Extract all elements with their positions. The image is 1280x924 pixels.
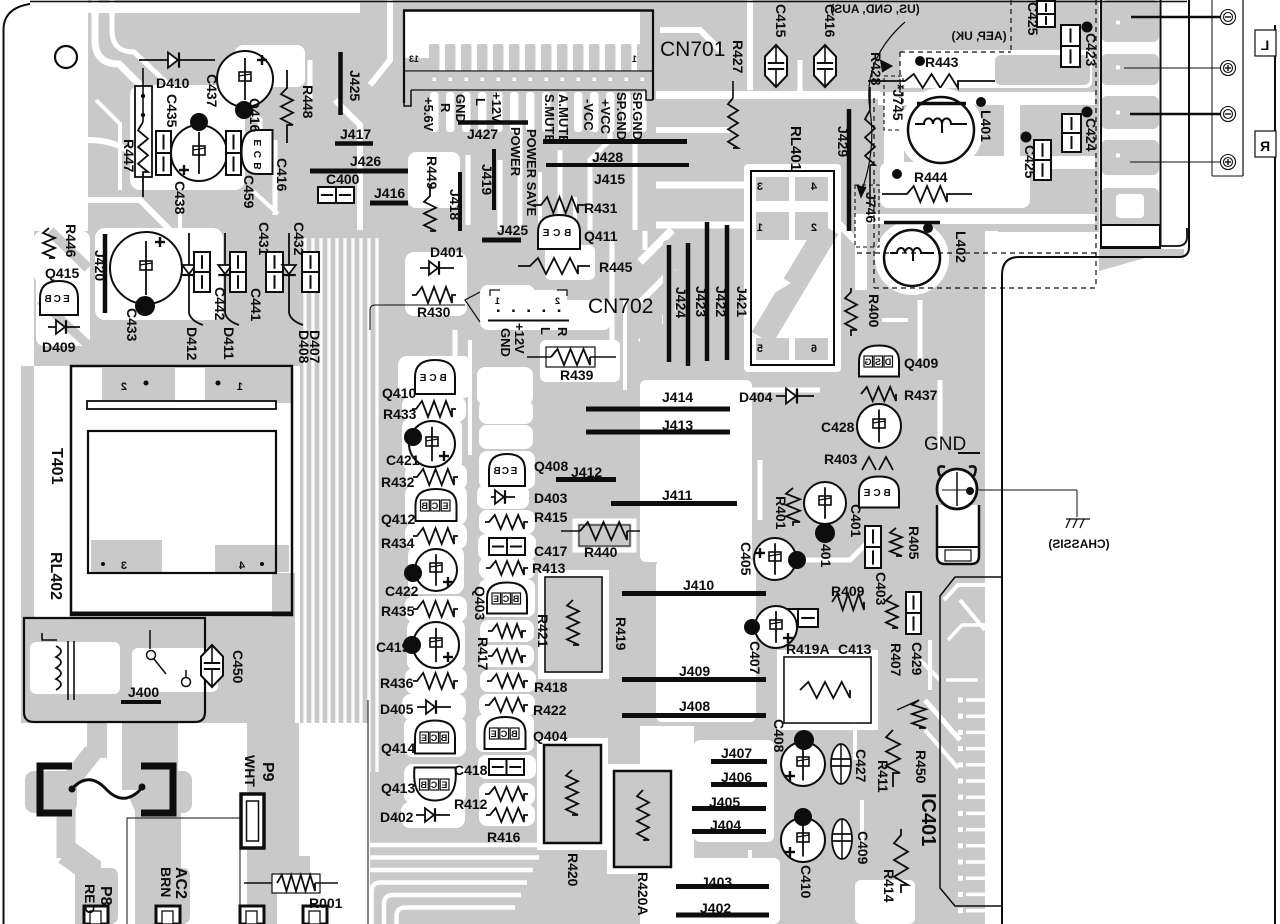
svg-text:C438: C438 [172, 181, 188, 215]
svg-text:P8: P8 [97, 886, 114, 906]
svg-text:J425: J425 [497, 222, 528, 238]
svg-text:R401: R401 [773, 496, 789, 530]
svg-text:R443: R443 [925, 54, 959, 70]
svg-text:C: C [54, 294, 61, 305]
svg-text:C407: C407 [747, 641, 763, 675]
svg-text:E: E [441, 780, 447, 790]
svg-text:C: C [873, 488, 880, 499]
svg-text:C433: C433 [124, 308, 140, 342]
svg-text:J422: J422 [713, 286, 729, 317]
svg-text:L401: L401 [978, 110, 994, 142]
svg-text:C401: C401 [848, 504, 864, 538]
svg-text:2: 2 [121, 381, 127, 393]
svg-text:C442: C442 [212, 287, 228, 321]
svg-text:C432: C432 [291, 222, 307, 256]
svg-text:Q416: Q416 [247, 98, 263, 132]
svg-text:J425: J425 [347, 70, 363, 101]
svg-text:R421: R421 [535, 614, 551, 648]
svg-text:D412: D412 [184, 327, 200, 361]
svg-text:J414: J414 [662, 389, 693, 405]
svg-text:E: E [510, 466, 517, 477]
svg-text:J412: J412 [571, 464, 602, 480]
svg-text:R403: R403 [824, 451, 858, 467]
svg-text:3: 3 [121, 560, 127, 572]
svg-text:D411: D411 [221, 327, 237, 360]
svg-text:R448: R448 [300, 85, 316, 119]
svg-text:C424: C424 [1083, 118, 1099, 152]
svg-text:J423: J423 [693, 286, 709, 317]
svg-text:Q412: Q412 [381, 511, 415, 527]
svg-text:*J745: *J745 [890, 84, 906, 121]
svg-text:13: 13 [409, 54, 419, 64]
svg-text:IC401: IC401 [917, 793, 939, 846]
svg-text:C405: C405 [738, 542, 754, 576]
svg-text:C431: C431 [256, 222, 272, 256]
svg-text:E: E [253, 140, 264, 147]
svg-text:J427: J427 [467, 126, 498, 142]
svg-text:R439: R439 [560, 367, 594, 383]
svg-text:E: E [542, 228, 549, 239]
svg-text:E: E [491, 729, 497, 739]
svg-text:C: C [253, 151, 264, 158]
svg-text:C400: C400 [326, 171, 360, 187]
svg-text:R001: R001 [309, 895, 343, 911]
svg-text:R418: R418 [534, 679, 568, 695]
svg-text:R414: R414 [881, 869, 897, 903]
svg-text:SP.GND: SP.GND [614, 92, 629, 140]
svg-text:J400: J400 [128, 684, 159, 700]
svg-text:C417: C417 [534, 543, 568, 559]
svg-text:(CHASSIS): (CHASSIS) [1048, 537, 1109, 551]
svg-text:SP.GND: SP.GND [630, 92, 645, 140]
svg-text:2: 2 [555, 296, 560, 306]
svg-text:R431: R431 [584, 200, 618, 216]
svg-text:GND: GND [498, 328, 513, 357]
svg-text:E: E [63, 294, 70, 305]
svg-text:BRN: BRN [158, 867, 174, 897]
svg-text:C441: C441 [248, 288, 264, 322]
svg-text:C419: C419 [376, 639, 410, 655]
svg-text:R434: R434 [381, 535, 415, 551]
svg-text:D405: D405 [380, 701, 414, 717]
svg-text:-VCC: -VCC [581, 99, 596, 131]
svg-text:C425: C425 [1022, 145, 1038, 179]
svg-text:R427: R427 [730, 40, 746, 74]
svg-text:Q408: Q408 [534, 458, 568, 474]
svg-text:R449: R449 [424, 156, 440, 190]
svg-text:Q409: Q409 [904, 355, 938, 371]
svg-text:J429: J429 [835, 126, 851, 157]
svg-text:C422: C422 [385, 583, 419, 599]
svg-text:Q410: Q410 [382, 385, 416, 401]
svg-text:2: 2 [811, 222, 817, 234]
svg-text:E: E [419, 373, 426, 384]
svg-text:Q415: Q415 [45, 265, 79, 281]
svg-text:B: B [420, 780, 427, 790]
svg-text:D403: D403 [534, 490, 568, 506]
svg-text:B: B [512, 594, 519, 604]
svg-text:D407: D407 [307, 330, 323, 364]
svg-text:R407: R407 [888, 643, 904, 677]
svg-text:R444: R444 [914, 169, 948, 185]
svg-text:R440: R440 [584, 544, 618, 560]
svg-text:1: 1 [632, 54, 637, 64]
svg-text:B: B [439, 373, 446, 384]
svg-text:R420A: R420A [635, 872, 651, 916]
svg-text:R409: R409 [831, 583, 865, 599]
svg-text:S.MUTE: S.MUTE [542, 94, 557, 143]
svg-text:RL401: RL401 [787, 126, 804, 171]
svg-text:CN701: CN701 [660, 38, 725, 61]
svg-text:401: 401 [818, 544, 834, 568]
svg-text:4: 4 [810, 181, 817, 193]
svg-text:R: R [438, 103, 453, 113]
svg-text:J411: J411 [662, 487, 693, 503]
svg-text:D410: D410 [156, 75, 190, 91]
svg-text:J415: J415 [594, 171, 625, 187]
svg-text:S: S [875, 357, 881, 367]
svg-text:T401: T401 [48, 448, 65, 485]
svg-text:C409: C409 [855, 831, 871, 865]
svg-text:R436: R436 [380, 675, 414, 691]
svg-text:R405: R405 [906, 526, 922, 560]
svg-text:C: C [430, 733, 437, 743]
svg-text:L: L [538, 327, 553, 335]
svg-text:POWER: POWER [508, 127, 523, 177]
svg-text:WHT: WHT [242, 755, 258, 787]
svg-text:B: B [44, 294, 51, 305]
svg-text:R412: R412 [454, 796, 488, 812]
svg-text:R432: R432 [381, 474, 415, 490]
svg-text:(US, GND, AUS): (US, GND, AUS) [830, 2, 920, 16]
svg-text:A.MUTE: A.MUTE [556, 94, 571, 144]
svg-text:GND: GND [924, 434, 966, 455]
svg-text:+VCC: +VCC [598, 99, 613, 135]
svg-text:J403: J403 [701, 874, 732, 890]
svg-text:J416: J416 [374, 185, 405, 201]
svg-text:R450: R450 [913, 750, 929, 784]
svg-text:C425: C425 [1025, 2, 1041, 36]
svg-text:R: R [1260, 138, 1270, 154]
svg-text:B: B [564, 228, 571, 239]
svg-text:B: B [421, 501, 428, 511]
svg-text:Q413: Q413 [381, 780, 415, 796]
svg-text:J406: J406 [721, 769, 752, 785]
svg-text:R446: R446 [63, 224, 79, 258]
svg-text:J426: J426 [350, 153, 381, 169]
svg-text:D: D [884, 357, 891, 367]
svg-text:R445: R445 [599, 259, 633, 275]
svg-text:C418: C418 [454, 762, 488, 778]
svg-text:J420: J420 [92, 250, 108, 281]
svg-text:3: 3 [757, 181, 763, 193]
svg-text:P9: P9 [259, 762, 276, 782]
svg-text:R: R [555, 327, 570, 337]
svg-text:B: B [440, 733, 447, 743]
svg-text:E: E [421, 733, 427, 743]
svg-text:G: G [864, 357, 871, 367]
svg-text:C410: C410 [798, 865, 814, 899]
svg-text:C435: C435 [164, 94, 180, 128]
svg-text:POWER SAVE: POWER SAVE [524, 129, 539, 216]
svg-text:J424: J424 [673, 287, 689, 318]
svg-text:D404: D404 [739, 389, 773, 405]
svg-text:C421: C421 [386, 452, 420, 468]
svg-text:J419: J419 [479, 164, 495, 195]
svg-text:C408: C408 [771, 719, 787, 753]
svg-text:J428: J428 [592, 149, 623, 165]
svg-text:R430: R430 [417, 304, 451, 320]
svg-text:(AEP, UK): (AEP, UK) [951, 29, 1006, 43]
svg-text:J410: J410 [683, 577, 714, 593]
svg-text:R433: R433 [383, 406, 417, 422]
svg-text:Q403: Q403 [472, 586, 488, 620]
svg-text:Q414: Q414 [381, 740, 415, 756]
svg-text:L: L [473, 98, 488, 106]
svg-text:1: 1 [495, 296, 500, 306]
svg-text:6: 6 [811, 343, 817, 355]
svg-text:J405: J405 [709, 794, 740, 810]
svg-text:E: E [442, 501, 448, 511]
svg-text:R420: R420 [565, 853, 581, 887]
svg-text:R417: R417 [475, 637, 491, 671]
svg-text:R415: R415 [534, 509, 568, 525]
svg-text:C437: C437 [204, 74, 220, 108]
svg-text:C: C [502, 466, 509, 477]
svg-text:C415: C415 [773, 4, 789, 38]
svg-text:C403: C403 [873, 572, 889, 606]
svg-text:C: C [553, 228, 560, 239]
svg-text:C: C [500, 729, 507, 739]
svg-text:1: 1 [237, 381, 243, 393]
svg-text:C427: C427 [853, 749, 869, 783]
svg-text:R413: R413 [532, 560, 566, 576]
svg-text:D409: D409 [42, 339, 76, 355]
svg-text:GND: GND [453, 94, 468, 123]
svg-text:J407: J407 [721, 745, 752, 761]
svg-text:E: E [863, 488, 870, 499]
svg-text:E: E [493, 594, 499, 604]
svg-text:D402: D402 [380, 809, 414, 825]
svg-text:R419A: R419A [786, 641, 830, 657]
svg-text:J746: J746 [863, 192, 879, 223]
svg-text:C: C [429, 373, 436, 384]
svg-text:1: 1 [757, 222, 763, 234]
svg-text:J421: J421 [734, 286, 750, 317]
svg-text:+12V: +12V [512, 323, 527, 354]
svg-text:4: 4 [238, 560, 245, 572]
svg-text:RL402: RL402 [47, 552, 64, 600]
svg-text:J413: J413 [662, 417, 693, 433]
svg-text:+12V: +12V [489, 92, 504, 123]
svg-text:C450: C450 [230, 650, 246, 684]
svg-text:J404: J404 [710, 817, 741, 833]
svg-text:+5.6V: +5.6V [421, 97, 436, 132]
svg-text:C: C [502, 594, 509, 604]
svg-text:C459: C459 [241, 175, 257, 209]
svg-text:J408: J408 [679, 698, 710, 714]
svg-text:R428: R428 [868, 52, 884, 86]
svg-text:D401: D401 [430, 244, 464, 260]
svg-text:R437: R437 [904, 387, 938, 403]
svg-text:C429: C429 [909, 642, 925, 676]
svg-text:Q411: Q411 [584, 228, 618, 244]
svg-text:C: C [430, 780, 437, 790]
svg-text:B: B [883, 488, 890, 499]
svg-text:CN702: CN702 [588, 295, 653, 318]
svg-text:J418: J418 [447, 189, 463, 220]
svg-text:R422: R422 [533, 702, 567, 718]
svg-text:B: B [493, 466, 500, 477]
svg-text:R416: R416 [487, 829, 521, 845]
svg-text:B: B [253, 162, 264, 169]
svg-text:J409: J409 [679, 663, 710, 679]
svg-text:R400: R400 [866, 294, 882, 328]
svg-text:C: C [431, 501, 438, 511]
svg-text:B: B [511, 729, 518, 739]
svg-text:5: 5 [757, 343, 763, 355]
svg-text:C413: C413 [838, 641, 872, 657]
svg-text:J417: J417 [340, 126, 371, 142]
svg-text:R411: R411 [875, 760, 891, 793]
svg-text:Q404: Q404 [533, 728, 567, 744]
svg-text:R447: R447 [121, 139, 137, 173]
svg-text:J402: J402 [700, 900, 731, 916]
svg-text:L: L [1260, 37, 1269, 53]
svg-text:C428: C428 [821, 419, 855, 435]
svg-text:L402: L402 [953, 231, 969, 263]
svg-text:RED: RED [82, 884, 98, 914]
svg-text:C423: C423 [1083, 33, 1099, 67]
svg-text:R419: R419 [613, 617, 629, 651]
svg-text:R435: R435 [381, 603, 415, 619]
svg-text:C416: C416 [274, 158, 290, 192]
